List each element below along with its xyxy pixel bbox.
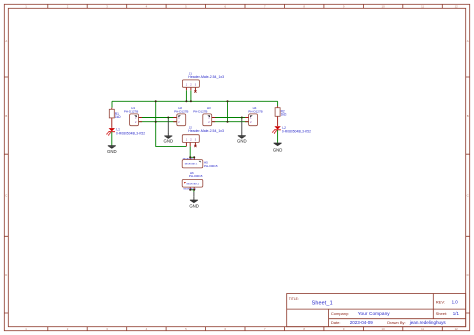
svg-text:jean.redelinghuys: jean.redelinghuys — [409, 320, 447, 325]
svg-text:1kΩ: 1kΩ — [115, 115, 121, 119]
svg-text:GND: GND — [237, 138, 247, 143]
wire: bus drop 1 — [155, 101, 157, 121]
no-connect x on J2 pin3 — [194, 145, 196, 147]
svg-text:10: 10 — [382, 327, 386, 331]
svg-text:12: 12 — [455, 5, 459, 9]
wire: left drop to R1 — [111, 101, 113, 107]
wire: L2 to gnd — [277, 130, 279, 143]
svg-text:11: 11 — [421, 5, 424, 9]
frame bottom ticks — [48, 327, 443, 331]
svg-text:PH-D127B: PH-D127B — [174, 109, 188, 113]
svg-text:Header-Male-2.54_1x3: Header-Male-2.54_1x3 — [188, 75, 224, 79]
svg-text:2023-04-09: 2023-04-09 — [350, 320, 374, 325]
svg-text:0-R0805048L3-K52: 0-R0805048L3-K52 — [282, 130, 311, 134]
svg-text:MICROBIT-1: MICROBIT-1 — [187, 183, 200, 185]
svg-text:11: 11 — [421, 327, 424, 331]
svg-text:Sheet_1: Sheet_1 — [312, 300, 333, 306]
svg-text:PH-D127B: PH-D127B — [248, 109, 262, 113]
LED L1 — [106, 127, 145, 135]
frame zone numbers bottom — [25, 327, 458, 331]
svg-text:A: A — [5, 39, 7, 43]
pad H5 — [182, 157, 218, 168]
frame zone letters right — [467, 39, 469, 277]
wire: main bus — [112, 100, 278, 102]
svg-text:10: 10 — [382, 5, 386, 9]
frame right ticks — [466, 77, 470, 313]
wire: J1 pin2 to bus — [190, 90, 192, 101]
wire: right drop to R2 — [277, 101, 279, 106]
wire: J2 pin2 down to H5 — [189, 146, 191, 157]
svg-text:PH-D127B: PH-D127B — [193, 109, 207, 113]
svg-text:B: B — [467, 114, 469, 118]
wire: J1 pin1 to bus — [185, 90, 187, 101]
LED L2 — [272, 126, 311, 134]
svg-text:1/1: 1/1 — [453, 311, 460, 316]
svg-text:Sheet:: Sheet: — [436, 311, 448, 316]
svg-text:A: A — [467, 39, 469, 43]
ground (bottom) — [189, 197, 199, 209]
wire: H1-H2 lower — [139, 121, 177, 123]
junction dots — [155, 100, 243, 191]
wire: H6 bottom link — [190, 189, 194, 191]
wire: L1 to gnd — [111, 132, 113, 146]
svg-text:GND: GND — [189, 203, 199, 208]
svg-text:MICROBIT-1: MICROBIT-1 — [185, 163, 198, 165]
wire: H5 top link — [190, 156, 194, 158]
svg-text:Drawn By:: Drawn By: — [387, 320, 405, 325]
svg-text:PH-00015: PH-00015 — [204, 164, 218, 168]
svg-text:B: B — [5, 114, 7, 118]
svg-text:Header-Male-2.54_1x3: Header-Male-2.54_1x3 — [188, 129, 224, 133]
svg-text:Date:: Date: — [331, 320, 341, 325]
wire: H3-H4 upper — [212, 117, 249, 119]
svg-text:GND: GND — [164, 139, 174, 144]
svg-text:H3: H3 — [207, 106, 211, 110]
svg-text:D: D — [467, 273, 469, 277]
ground (left) — [107, 146, 117, 154]
title block outline — [287, 294, 466, 327]
svg-text:TITLE:: TITLE: — [289, 297, 299, 301]
svg-text:PH-00015: PH-00015 — [189, 174, 203, 178]
pad H6 — [182, 171, 203, 191]
wire: gnd stem 1 — [167, 118, 169, 120]
svg-text:12: 12 — [455, 327, 459, 331]
title block values — [312, 300, 460, 326]
header H4 — [245, 106, 263, 126]
connector J1 — [182, 71, 224, 92]
svg-text:D: D — [5, 273, 7, 277]
svg-text:0-R0805048L3-K52: 0-R0805048L3-K52 — [116, 131, 145, 135]
svg-text:C: C — [5, 194, 7, 198]
svg-text:PH-D127B: PH-D127B — [124, 109, 138, 113]
resistor R1 — [109, 108, 121, 128]
wire: H6 to gnd — [193, 190, 195, 192]
svg-text:REV:: REV: — [436, 300, 445, 305]
svg-text:GND: GND — [273, 148, 283, 153]
svg-text:1kΩ: 1kΩ — [281, 113, 287, 117]
wire: gnd stem 2 — [241, 118, 243, 120]
frame left ticks — [4, 77, 8, 313]
wire: feed to J2 pin1 — [156, 122, 187, 147]
connector J2 — [182, 126, 224, 147]
header H1 — [124, 106, 142, 126]
svg-text:GND: GND — [107, 149, 117, 154]
ground (center left) — [164, 133, 174, 144]
wire: H3-H4 lower — [212, 121, 249, 123]
frame zone numbers top — [25, 5, 458, 9]
svg-text:1.0: 1.0 — [452, 300, 459, 305]
header H2 — [173, 106, 188, 126]
frame top ticks — [48, 4, 443, 8]
ground (center right) — [237, 133, 247, 144]
svg-text:Your Company: Your Company — [358, 311, 391, 316]
svg-text:C: C — [467, 194, 469, 198]
no-connect x on J1 pin3 — [194, 90, 196, 92]
wire: H1-H2 upper — [139, 117, 177, 119]
resistor R2 — [275, 106, 287, 126]
frame zone letters left — [5, 39, 7, 277]
svg-text:Company:: Company: — [331, 311, 349, 316]
ground (right) — [273, 143, 283, 153]
wire: bus drop 2 — [227, 101, 229, 121]
title block labels — [289, 297, 447, 325]
header H3 — [193, 106, 215, 126]
